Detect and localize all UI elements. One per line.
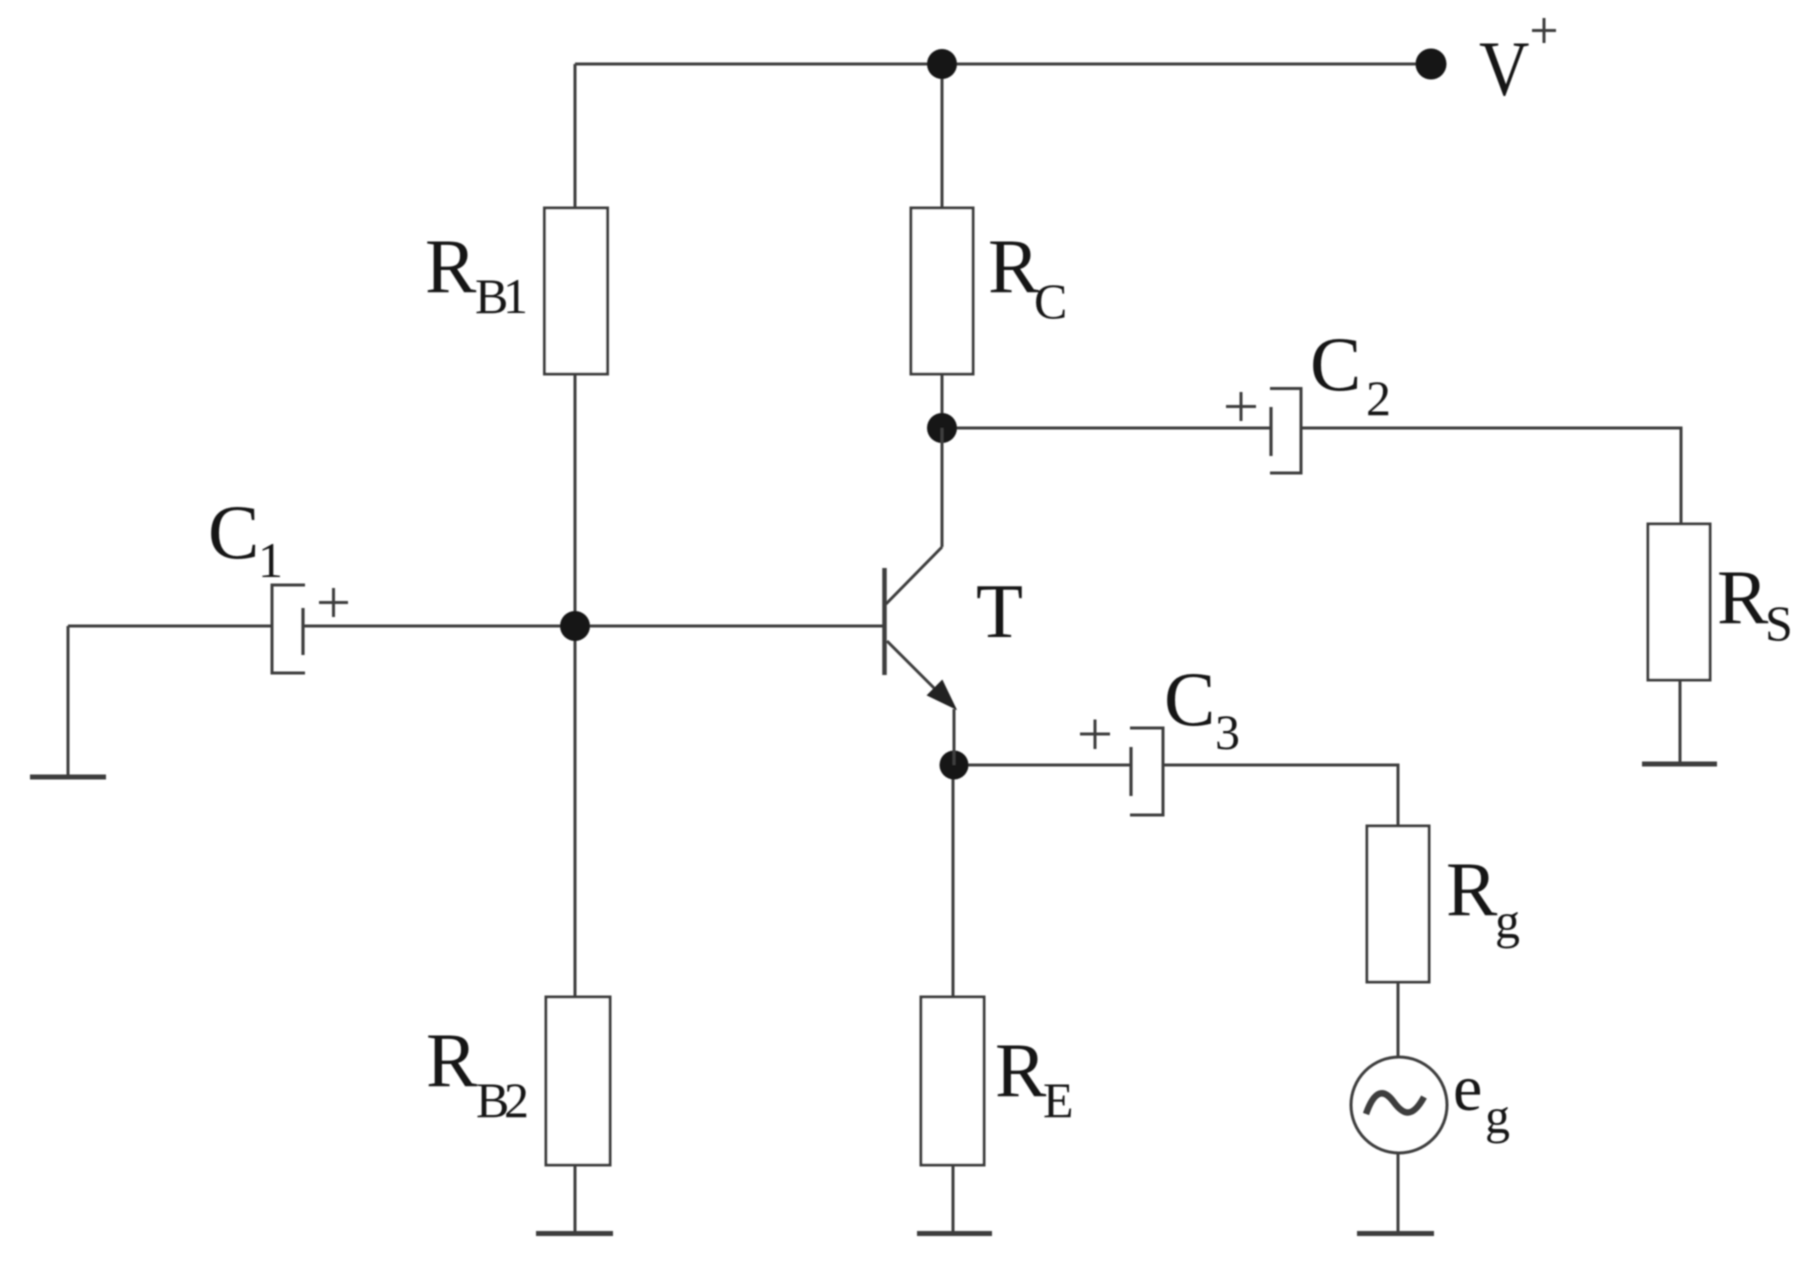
resistor RC xyxy=(911,208,973,374)
wire RC top xyxy=(941,64,944,208)
svg-text:R: R xyxy=(1717,554,1769,640)
wire RB1 top xyxy=(574,64,577,208)
resistor Rg xyxy=(1367,826,1429,982)
ground RE xyxy=(917,1231,992,1236)
wire source bottom to ground xyxy=(1397,1153,1400,1233)
svg-text:R: R xyxy=(426,1017,478,1103)
label RC xyxy=(988,223,1067,329)
label V+ xyxy=(1479,18,1556,113)
label C3 xyxy=(1164,656,1240,760)
svg-text:3: 3 xyxy=(1215,704,1240,760)
node emitter junction xyxy=(940,751,969,780)
svg-text:1: 1 xyxy=(503,268,528,324)
wire emitter node to RE xyxy=(952,765,955,997)
svg-text:C: C xyxy=(208,489,259,575)
resistor RB2 xyxy=(546,997,610,1165)
capacitor C3 xyxy=(1080,720,1163,816)
node collector junction xyxy=(927,413,957,443)
wire C2 to RS corner xyxy=(1301,428,1681,524)
label C1 xyxy=(208,489,283,588)
resistor RE xyxy=(921,997,984,1165)
node V+ terminal xyxy=(1416,49,1447,80)
wire base node to RB2 xyxy=(574,626,577,997)
wire RB1 bottom to base node xyxy=(574,374,577,626)
svg-text:R: R xyxy=(425,223,477,309)
wire RB2 bottom to ground xyxy=(574,1165,577,1233)
ground RB2 xyxy=(536,1231,613,1236)
svg-text:R: R xyxy=(1446,846,1498,932)
capacitor C2 xyxy=(1226,389,1301,474)
wire RS bottom to ground xyxy=(1679,680,1682,764)
svg-text:1: 1 xyxy=(258,532,283,588)
svg-text:R: R xyxy=(995,1027,1047,1113)
wire input down to ground xyxy=(67,626,70,777)
wire C3 to Rg corner xyxy=(1163,765,1398,826)
svg-text:C: C xyxy=(1034,273,1067,329)
label C2 xyxy=(1310,321,1391,426)
node supply junction xyxy=(927,49,957,79)
wire RC bottom to collector node xyxy=(941,374,944,428)
svg-text:2: 2 xyxy=(1366,370,1391,426)
svg-text:R: R xyxy=(988,223,1040,309)
label RB1 xyxy=(425,223,528,324)
transistor T xyxy=(885,428,957,765)
resistor RS xyxy=(1648,524,1710,680)
wire emitter node to C3 xyxy=(954,764,1130,767)
svg-text:e: e xyxy=(1453,1052,1482,1125)
svg-text:C: C xyxy=(1164,656,1215,742)
wire input left xyxy=(68,625,272,628)
wire top supply rail xyxy=(575,63,1431,66)
ground input xyxy=(30,775,106,780)
svg-text:E: E xyxy=(1043,1072,1074,1128)
capacitor C1 xyxy=(272,585,348,673)
svg-text:T: T xyxy=(976,568,1023,654)
label RS xyxy=(1717,554,1793,651)
svg-text:g: g xyxy=(1485,1088,1510,1144)
source eg xyxy=(1351,1057,1447,1153)
label RB2 xyxy=(426,1017,529,1128)
wire Rg bottom to source xyxy=(1397,982,1400,1057)
wire C1 to base node xyxy=(303,625,575,628)
svg-text:S: S xyxy=(1765,595,1793,651)
ground RS xyxy=(1642,762,1717,767)
svg-text:2: 2 xyxy=(504,1072,529,1128)
label RE xyxy=(995,1027,1074,1128)
resistor RB1 xyxy=(545,208,608,374)
svg-text:g: g xyxy=(1495,893,1520,949)
ground eg xyxy=(1357,1231,1434,1236)
node base junction xyxy=(560,611,590,641)
svg-text:V: V xyxy=(1479,26,1529,113)
wire RE bottom to ground xyxy=(952,1165,955,1233)
label Rg xyxy=(1446,846,1520,949)
wire base node to transistor base xyxy=(575,625,883,628)
wire collector node to C2 xyxy=(942,427,1270,430)
label eg xyxy=(1453,1052,1510,1144)
svg-text:C: C xyxy=(1310,321,1361,407)
